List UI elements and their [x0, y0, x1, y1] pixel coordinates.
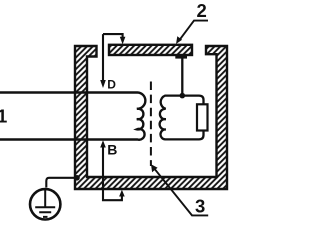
svg-text:D: D [107, 78, 116, 92]
svg-text:3: 3 [195, 195, 205, 216]
svg-text:2: 2 [197, 0, 207, 21]
svg-text:B: B [107, 142, 117, 158]
svg-text:1: 1 [0, 106, 7, 127]
